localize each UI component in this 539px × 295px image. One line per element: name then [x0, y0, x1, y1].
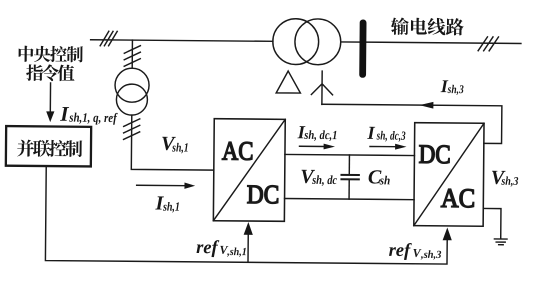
svg-text:sh,1: sh,1	[162, 200, 180, 214]
break symbol /// on left end of transmission line	[100, 31, 117, 46]
svg-text:DC: DC	[247, 179, 280, 209]
ground symbol	[494, 239, 507, 245]
svg-text:sh,3: sh,3	[447, 82, 464, 96]
label V_sh,3	[491, 167, 519, 189]
wire: I_sh,3 feedback from right node to wye	[322, 104, 502, 143]
svg-text:sh, dc,3: sh, dc,3	[376, 129, 406, 143]
converter U2 diagonal	[414, 123, 484, 227]
label 并联控制 (shunt control)	[17, 140, 82, 158]
arrow I_sh,1 (current into converter U1)	[137, 184, 185, 186]
svg-text:ref: ref	[389, 241, 413, 261]
shunt controller box 并联控制	[6, 126, 91, 166]
wire: junction from transmission line down to shunt transformer	[131, 40, 133, 68]
label I_sh,1,q,ref	[59, 102, 118, 127]
label I_sh,dc,3	[366, 124, 405, 144]
label C_sh	[368, 166, 391, 188]
label V_sh,dc	[300, 166, 337, 188]
svg-text:sh,1, q, ref: sh,1, q, ref	[68, 110, 118, 125]
svg-text:DC: DC	[419, 139, 451, 169]
label V_sh,1	[161, 133, 189, 155]
arrow I_sh,dc,1	[300, 145, 324, 147]
break symbol /// on right end of transmission line	[478, 37, 498, 51]
transformer T1 (series coupling, two overlapping circles)	[273, 19, 319, 65]
svg-text:I: I	[59, 102, 69, 126]
label ref_V,sh,3	[389, 241, 443, 261]
svg-text:I: I	[366, 124, 375, 144]
converter U2 box (DC/AC)	[414, 123, 484, 227]
arrowhead ref_V,sh,1	[244, 222, 253, 235]
converter U1 box (AC/DC)	[213, 119, 285, 222]
wire: controller output feedback line along bottom	[45, 166, 447, 264]
svg-text:sh, dc: sh, dc	[311, 173, 337, 187]
arrow: command value into shunt controller	[49, 83, 51, 112]
delta winding symbol	[276, 71, 300, 93]
wire: shunt branch down and into converter U1	[131, 115, 214, 170]
wire: DC link top rail	[285, 154, 414, 155]
arrowhead ref_V,sh,3	[443, 227, 452, 240]
bus bar (thick black bar)	[359, 19, 366, 77]
svg-text:sh,1: sh,1	[171, 140, 188, 154]
break symbol /// on shunt branch upper	[124, 46, 140, 67]
label 输电线路 (transmission line)	[391, 17, 464, 35]
arrowhead I_sh,3 (pointing left)	[419, 102, 433, 109]
wye winding symbol	[311, 71, 332, 105]
wire: DC link bottom rail	[285, 199, 414, 200]
label 中央控制 (central control)	[19, 46, 83, 63]
svg-text:sh: sh	[379, 173, 391, 187]
label 指令值 (command value)	[26, 64, 75, 81]
capacitor C_sh	[348, 155, 350, 174]
svg-text:sh, dc,1: sh, dc,1	[303, 128, 337, 142]
label I_sh,1	[154, 192, 180, 214]
svg-text:sh,3: sh,3	[501, 174, 519, 188]
label I_sh,dc,1	[297, 123, 338, 143]
svg-text:,sh,3: ,sh,3	[420, 249, 442, 261]
wire: top transmission line (right segment)	[341, 42, 521, 44]
svg-text:ref: ref	[196, 238, 220, 258]
svg-text:AC: AC	[222, 135, 254, 165]
label I_sh,3	[440, 76, 464, 96]
transformer T2 (shunt transformer, two vertical circles)	[115, 68, 149, 102]
wire: top transmission line (left segment)	[91, 40, 273, 42]
converter U1 diagonal	[213, 119, 285, 222]
label ref_V,sh,1	[196, 238, 247, 258]
svg-text:AC: AC	[441, 183, 476, 213]
break symbol /// on shunt branch lower	[124, 119, 140, 140]
arrow I_sh,dc,3	[370, 145, 395, 147]
svg-text:,sh,1: ,sh,1	[226, 246, 247, 258]
wire: U2 output to ground node	[483, 208, 501, 238]
wire: ref_V,sh,1 branch up	[247, 234, 249, 262]
